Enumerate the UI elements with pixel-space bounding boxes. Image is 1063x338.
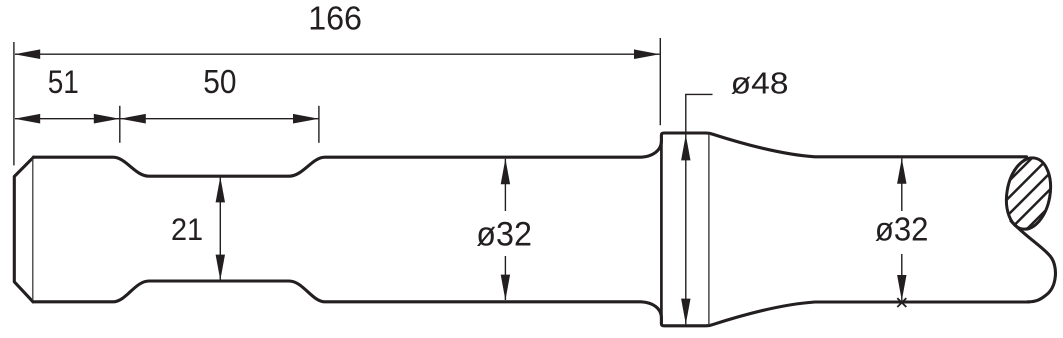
tool outline: top profile (blade to break) — [34, 133, 1027, 176]
arrow 51 left — [14, 114, 40, 124]
dim ø48: shaft — [685, 94, 687, 324]
dim mid ø32: shafts — [504, 159, 506, 211]
blade left tip (chamfered end) — [14, 157, 33, 302]
arrow mid ø32 up — [501, 159, 510, 185]
break: hatch lines — [870, 140, 1063, 320]
arrow 50 left (at tick) — [120, 114, 146, 124]
blade bevel edge line — [32, 159, 34, 301]
dim 21: shaft — [219, 177, 221, 280]
arrow 166 right — [634, 49, 660, 59]
dimension line 166 — [15, 53, 660, 55]
extension line right of 166 — [659, 38, 661, 125]
svg-text:166: 166 — [308, 1, 362, 38]
arrow 50 right — [293, 114, 319, 124]
break: hatched ellipse (cut face) — [1001, 154, 1056, 232]
tool outline: bottom profile — [33, 281, 1029, 326]
extension line right of 50 — [318, 106, 320, 143]
collar right tangent edge line — [708, 134, 710, 325]
arrow ø48 up — [681, 135, 690, 161]
arrow right ø32 down — [897, 275, 906, 301]
svg-text:ø32: ø32 — [875, 212, 929, 249]
extension line at 51/50 tick — [119, 106, 121, 143]
arrow 21 down — [216, 255, 225, 281]
arrow mid ø32 down — [501, 275, 510, 301]
x mark at right ø32 bottom tip — [897, 298, 906, 307]
collar left face edge — [660, 134, 663, 325]
arrow right ø32 up — [897, 158, 906, 184]
extension line left (x=14) — [13, 42, 15, 165]
arrow ø48 down — [681, 299, 690, 325]
svg-text:50: 50 — [203, 64, 236, 101]
dim right ø32: shafts — [901, 158, 903, 211]
arrow 166 left — [14, 49, 40, 59]
arrow 51 right (at tick) — [94, 114, 120, 124]
break: lower S-curve — [1011, 221, 1055, 302]
arrow 21 up — [216, 177, 225, 203]
svg-text:51: 51 — [48, 64, 79, 100]
svg-text:ø32: ø32 — [476, 215, 532, 253]
svg-text:21: 21 — [171, 211, 203, 247]
dim ø48: leader — [685, 93, 712, 95]
dimension line 51 / 50 — [15, 118, 319, 120]
svg-text:ø48: ø48 — [731, 65, 789, 100]
